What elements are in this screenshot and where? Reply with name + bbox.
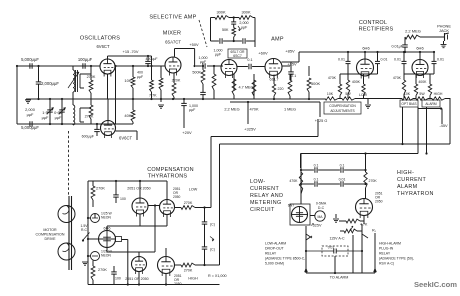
svg-text:1 MEG: 1 MEG (284, 107, 296, 112)
svg-text:AMP: AMP (271, 37, 284, 43)
svg-text:5,000 OHM): 5,000 OHM) (265, 262, 284, 266)
svg-text:400K: 400K (418, 80, 427, 84)
svg-text:(C): (C) (210, 248, 215, 252)
svg-text:7.7K: 7.7K (149, 94, 157, 98)
svg-text:0.01μF: 0.01μF (391, 45, 403, 49)
svg-text:6SC7: 6SC7 (233, 54, 242, 58)
svg-text:MOTOR: MOTOR (43, 228, 57, 232)
svg-text:PLUG-IN: PLUG-IN (379, 247, 394, 251)
svg-text:2050: 2050 (173, 195, 181, 199)
svg-text:270K: 270K (98, 268, 107, 272)
svg-text:CONTROL: CONTROL (359, 20, 387, 26)
svg-text:270K: 270K (85, 115, 94, 119)
svg-text:470K: 470K (289, 179, 298, 183)
svg-text:100μμF: 100μμF (78, 57, 93, 62)
svg-text:+15 -70V: +15 -70V (123, 49, 139, 54)
svg-text:300K: 300K (216, 10, 225, 15)
svg-text:DROP-OUT: DROP-OUT (265, 247, 285, 251)
svg-text:6V6CT: 6V6CT (119, 136, 132, 141)
svg-text:2.2 MEG: 2.2 MEG (405, 29, 421, 34)
svg-text:600μμF: 600μμF (82, 135, 95, 139)
svg-text:2.2 MEG: 2.2 MEG (224, 107, 239, 112)
svg-text:40K: 40K (124, 113, 131, 118)
svg-text:100: 100 (120, 197, 126, 201)
svg-text:270K: 270K (96, 187, 105, 191)
svg-text:(ADIANCE TYPE (50),: (ADIANCE TYPE (50), (379, 257, 414, 261)
svg-text:CIRCUIT: CIRCUIT (250, 207, 275, 213)
svg-text:+85V: +85V (285, 49, 295, 54)
svg-text:COMPENSATION: COMPENSATION (329, 104, 356, 108)
svg-text:COMPENSATION: COMPENSATION (36, 233, 65, 237)
svg-text:NEON: NEON (101, 216, 111, 220)
svg-text:470K: 470K (393, 76, 402, 80)
svg-text:5,000μμF: 5,000μμF (21, 57, 39, 62)
svg-text:10K: 10K (327, 92, 334, 96)
svg-text:JACK: JACK (439, 28, 449, 33)
svg-text:2050: 2050 (375, 200, 383, 204)
svg-text:0.1: 0.1 (291, 74, 296, 78)
svg-text:DRIVE: DRIVE (45, 237, 57, 241)
svg-text:μμF: μμF (27, 112, 34, 117)
svg-text:10K: 10K (404, 92, 411, 96)
svg-text:6SA7CT: 6SA7CT (165, 40, 181, 45)
svg-text:R-C: R-C (81, 228, 88, 232)
svg-text:THYRATRON: THYRATRON (397, 191, 434, 197)
svg-text:0.1: 0.1 (247, 58, 252, 62)
svg-text:0.1: 0.1 (340, 164, 345, 168)
svg-text:-45V: -45V (439, 123, 448, 128)
svg-text:RELAY: RELAY (379, 252, 391, 256)
svg-text:220K: 220K (172, 79, 181, 83)
svg-text:HIGH: HIGH (434, 92, 443, 96)
svg-text:HIGH-: HIGH- (397, 170, 414, 176)
svg-text:μμF: μμF (200, 60, 207, 64)
svg-text:OSCILLATORS: OSCILLATORS (80, 36, 120, 42)
svg-text:5W: 5W (419, 92, 425, 96)
svg-text:400K: 400K (352, 80, 361, 84)
svg-text:470K: 470K (328, 76, 337, 80)
svg-text:SeekIC.com: SeekIC.com (414, 280, 457, 289)
svg-text:2,000μμF: 2,000μμF (41, 81, 59, 86)
svg-text:6H6: 6H6 (362, 46, 370, 51)
svg-text:0.01: 0.01 (381, 58, 388, 62)
svg-text:ADJUSTMENTS: ADJUSTMENTS (330, 109, 355, 113)
svg-text:0.01: 0.01 (437, 58, 444, 62)
svg-text:4.7 MEG: 4.7 MEG (239, 86, 254, 90)
svg-text:+325V: +325V (244, 127, 256, 132)
svg-text:TO ALARM: TO ALARM (330, 276, 349, 280)
svg-text:(C): (C) (210, 223, 215, 227)
svg-text:+50V: +50V (189, 42, 199, 47)
svg-text:MIXER: MIXER (163, 31, 181, 37)
svg-text:μμF: μμF (137, 75, 143, 79)
svg-text:0.01: 0.01 (394, 58, 401, 62)
svg-text:SELECTIVE AMP: SELECTIVE AMP (149, 15, 196, 21)
svg-text:D-C: D-C (318, 206, 325, 210)
svg-text:2051 OR 2050: 2051 OR 2050 (125, 277, 148, 281)
svg-text:470K: 470K (249, 107, 258, 112)
svg-text:METERING: METERING (250, 200, 282, 206)
svg-text:RSV A-C): RSV A-C) (379, 262, 394, 266)
svg-text:400: 400 (137, 71, 143, 75)
svg-text:0.1: 0.1 (314, 164, 319, 168)
svg-text:+20V: +20V (182, 130, 192, 135)
svg-text:ALARM: ALARM (397, 184, 418, 190)
svg-text:(ADIANCE TYPE 8500-C,: (ADIANCE TYPE 8500-C, (265, 257, 305, 261)
svg-text:2051 OR 2050: 2051 OR 2050 (127, 187, 150, 191)
svg-text:10K: 10K (124, 78, 131, 83)
svg-text:R = X1,000: R = X1,000 (208, 274, 227, 278)
svg-text:NEON: NEON (101, 254, 111, 258)
svg-text:0.1: 0.1 (314, 178, 319, 182)
svg-text:500K: 500K (192, 71, 201, 75)
svg-text:2,000: 2,000 (239, 21, 248, 25)
svg-text:0.01: 0.01 (338, 58, 345, 62)
svg-text:50K: 50K (222, 28, 229, 32)
svg-text:μμF: μμF (215, 53, 222, 57)
svg-text:LOW-: LOW- (250, 179, 266, 185)
svg-text:COMPENSATION: COMPENSATION (147, 167, 194, 173)
svg-text:THYRATRONS: THYRATRONS (148, 174, 188, 180)
svg-text:RECTIFIERS: RECTIFIERS (359, 27, 394, 33)
svg-text:6H6: 6H6 (416, 46, 424, 51)
svg-text:CURRENT: CURRENT (397, 177, 426, 183)
svg-text:220: 220 (278, 87, 284, 91)
svg-text:0.01: 0.01 (339, 178, 346, 182)
svg-text:+325V: +325V (310, 224, 322, 228)
svg-text:LOW-ALARM: LOW-ALARM (265, 242, 286, 246)
svg-text:0.01: 0.01 (328, 246, 335, 250)
svg-text:HIGH-ALARM: HIGH-ALARM (379, 242, 401, 246)
svg-text:μμF: μμF (55, 115, 62, 120)
svg-text:5,000μμF: 5,000μμF (21, 125, 39, 130)
svg-text:270K: 270K (184, 269, 193, 273)
svg-text:300K: 300K (241, 10, 250, 15)
svg-text:RELAY: RELAY (265, 252, 277, 256)
svg-text:CURRENT: CURRENT (250, 186, 279, 192)
svg-text:6N7: 6N7 (288, 204, 295, 208)
svg-text:MA: MA (317, 215, 323, 219)
svg-text:+125 G: +125 G (315, 119, 328, 123)
svg-text:6V6CT: 6V6CT (96, 44, 109, 49)
svg-text:ALARM: ALARM (425, 102, 437, 106)
svg-text:LOW: LOW (359, 93, 368, 97)
svg-text:0-5MA: 0-5MA (316, 202, 327, 206)
svg-text:μμF: μμF (241, 26, 248, 30)
svg-text:LOW: LOW (189, 188, 198, 192)
svg-text:100: 100 (115, 277, 121, 281)
svg-text:RELAY AND: RELAY AND (250, 193, 283, 199)
svg-text:+60V: +60V (258, 51, 268, 56)
svg-text:μμF: μμF (42, 115, 49, 120)
svg-text:270K: 270K (369, 179, 378, 183)
svg-text:OPT BIAS: OPT BIAS (401, 102, 417, 106)
svg-text:270K: 270K (184, 201, 193, 205)
svg-text:HIGH: HIGH (188, 277, 198, 281)
svg-text:μμF: μμF (189, 108, 196, 112)
svg-text:5W: 5W (345, 92, 351, 96)
svg-text:115V A-C: 115V A-C (329, 237, 345, 241)
svg-text:500K: 500K (311, 81, 320, 86)
